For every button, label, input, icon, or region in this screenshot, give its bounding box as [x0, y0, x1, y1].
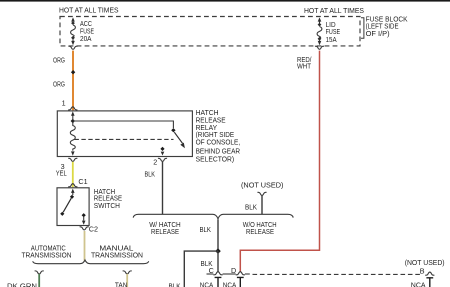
terminal pin under C [215, 277, 222, 287]
connector C bump [213, 272, 222, 275]
border frame top bar [0, 0, 450, 2]
svg-text:B: B [420, 267, 425, 276]
svg-text:2: 2 [153, 158, 157, 167]
connector stub manual transmission [123, 271, 132, 274]
svg-text:DK GRN: DK GRN [7, 282, 37, 287]
svg-text:BLK: BLK [169, 282, 181, 287]
svg-text:SWITCH: SWITCH [94, 201, 120, 210]
svg-text:NCA: NCA [411, 280, 426, 287]
relay pin 1 lead with arrow [72, 115, 74, 119]
wire BLK not-used stub [261, 195, 263, 214]
fuse block dashed box [60, 17, 360, 46]
pin ACC fuse output connector [68, 46, 77, 49]
relay actuation dashed link [75, 138, 174, 140]
terminal pin under B [426, 278, 433, 287]
switch S1 box HATCH RELEASE SWITCH [57, 188, 89, 226]
svg-text:BLK: BLK [200, 225, 212, 234]
relay switch blade (open) [174, 132, 182, 143]
wire BLK brace to junction [217, 220, 219, 252]
node switch S1 bottom contact [82, 213, 86, 217]
brace hatch release options [133, 214, 293, 219]
node splice on ORG wire [71, 70, 75, 74]
svg-text:TRANSMISSION: TRANSMISSION [91, 251, 143, 260]
connector stub automatic transmission [35, 271, 44, 274]
svg-text:TRANSMISSION: TRANSMISSION [22, 251, 72, 260]
wire RED/WHT from LID fuse to connector D [240, 51, 319, 272]
connector C1 [68, 184, 77, 187]
wire TAN C2 to transmission brace [84, 231, 86, 261]
node relay internal junction [71, 119, 75, 123]
svg-text:20A: 20A [80, 34, 92, 43]
svg-text:(NOT USED): (NOT USED) [405, 258, 445, 267]
pin LID fuse output connector [315, 46, 324, 49]
svg-text:RELEASE: RELEASE [151, 227, 179, 236]
terminal pin under D [237, 277, 244, 287]
svg-text:ORG: ORG [53, 55, 65, 64]
wire YEL relay pin3 to C1 [72, 162, 74, 188]
relay contact for pin 2 [160, 147, 164, 151]
wire BLK branch to left going off bottom [184, 251, 218, 287]
relay coil [70, 122, 75, 151]
svg-text:TAN: TAN [115, 280, 128, 287]
fuse block callout bracket [361, 18, 364, 39]
boundary dashed segment [253, 273, 423, 275]
connector D bump [236, 272, 245, 275]
svg-text:(NOT USED): (NOT USED) [241, 180, 283, 189]
svg-text:SELECTOR): SELECTOR) [196, 155, 235, 164]
svg-text:HOT AT ALL TIMES: HOT AT ALL TIMES [304, 6, 364, 15]
svg-text:NCA: NCA [200, 280, 214, 287]
fuse LID FUSE 15A [317, 17, 322, 45]
svg-text:C2: C2 [89, 225, 98, 234]
svg-text:BLK: BLK [245, 203, 257, 212]
wire DK GRN going off bottom [38, 274, 40, 287]
wire BLK relay pin2 to brace [162, 162, 164, 214]
wire TAN going off bottom [126, 274, 128, 287]
node switch pivot [171, 128, 175, 132]
svg-text:1: 1 [62, 98, 66, 107]
svg-text:RELEASE: RELEASE [246, 227, 274, 236]
wire ORG from ACC fuse to relay pin 1 [72, 51, 74, 111]
switch S1 bottom lead with arrow [83, 217, 85, 221]
svg-text:NCA: NCA [223, 280, 237, 287]
svg-text:C1: C1 [78, 177, 87, 186]
svg-text:YEL: YEL [56, 168, 67, 177]
relay U1 box HATCH RELEASE RELAY [57, 111, 192, 157]
svg-text:HOT AT ALL TIMES: HOT AT ALL TIMES [59, 6, 119, 15]
fuse ACC FUSE 20A [71, 17, 76, 45]
connector C2 [80, 227, 89, 230]
node switch S1 top contact [70, 195, 74, 199]
node junction splice [215, 248, 221, 254]
svg-text:BLK: BLK [145, 170, 156, 179]
svg-text:OF I/P): OF I/P) [366, 29, 390, 38]
transmission variant brace [33, 260, 149, 264]
wire BLK junction to connector C [217, 251, 219, 271]
switch S1 blade (open) [63, 198, 71, 212]
connector B bump [425, 272, 434, 275]
svg-text:ORG: ORG [53, 80, 65, 89]
svg-text:OF CONSOLE,: OF CONSOLE, [196, 138, 241, 147]
switch S1 top lead with arrow [72, 192, 74, 195]
wire relay internal to switch pivot [73, 121, 174, 128]
svg-text:15A: 15A [326, 35, 337, 44]
svg-text:WHT: WHT [297, 61, 312, 70]
